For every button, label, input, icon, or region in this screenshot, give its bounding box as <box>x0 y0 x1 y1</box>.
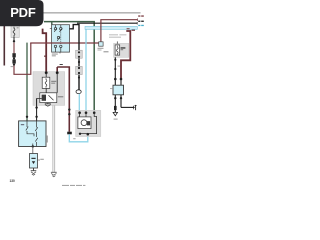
svg-text:130: 130 <box>10 179 16 183</box>
svg-text:PDF: PDF <box>10 5 36 20</box>
